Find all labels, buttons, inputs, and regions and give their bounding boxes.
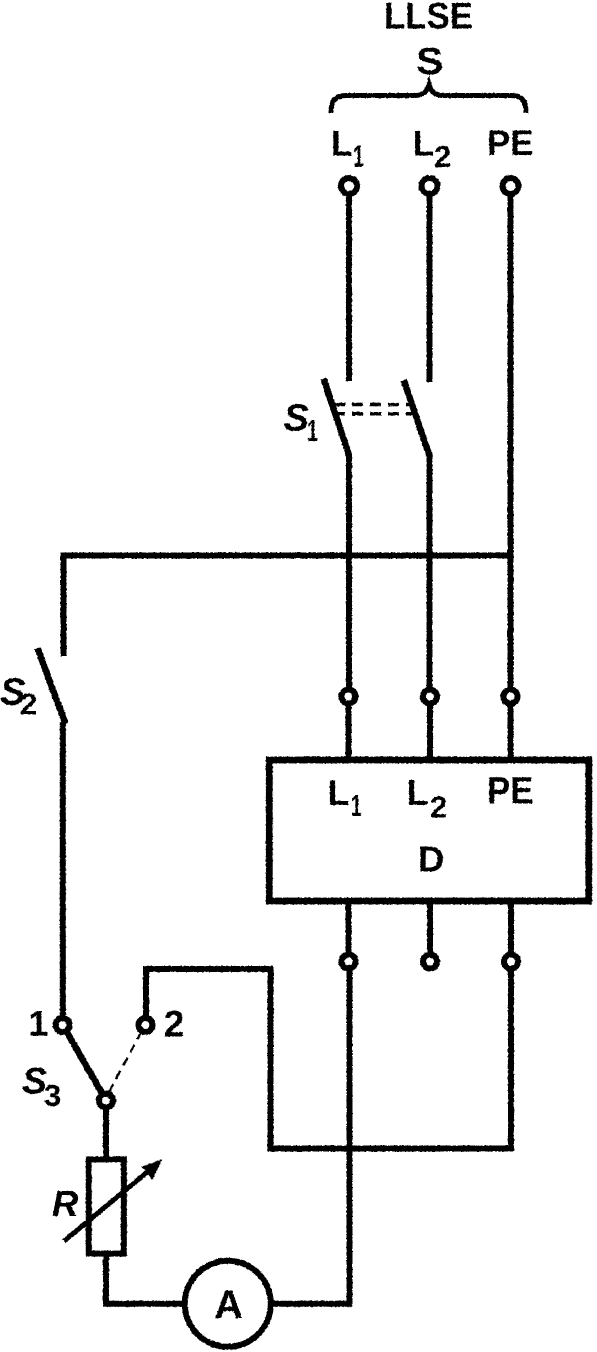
terminal D PE bottom [504, 955, 518, 969]
wire stub D L2 top [427, 703, 433, 760]
svg-text:1: 1 [307, 413, 318, 448]
svg-text:2: 2 [430, 790, 447, 825]
wire S2 to contact 1 [60, 722, 66, 1018]
wire stub D L1 bottom [346, 898, 352, 955]
svg-text:S: S [284, 398, 309, 440]
svg-text:2: 2 [20, 687, 37, 722]
svg-text:L: L [407, 772, 429, 813]
ammeter A [185, 1261, 271, 1347]
svg-text:3: 3 [44, 1078, 61, 1113]
wire stub D L1 top [346, 703, 352, 760]
switch S3 common pole [99, 1094, 113, 1108]
device D box [269, 760, 589, 901]
switch S3 contact 1 [56, 1018, 70, 1032]
terminal D L1 bottom [342, 955, 356, 969]
terminal PE [503, 178, 519, 194]
svg-text:1: 1 [351, 788, 362, 823]
switch S2 blade [38, 648, 66, 724]
svg-text:L: L [331, 125, 352, 164]
terminal D L1 top [342, 690, 356, 704]
svg-text:PE: PE [487, 124, 534, 163]
switch S1 linkage dashed line upper [334, 403, 412, 407]
terminal D L2 top [423, 690, 437, 704]
svg-text:PE: PE [487, 771, 534, 813]
switch S3 contact 2 [139, 1018, 153, 1032]
svg-text:R: R [52, 1183, 79, 1224]
wire D PE bottom to contact 2 [146, 968, 511, 1149]
svg-text:2: 2 [164, 1004, 185, 1045]
wire L2 below S1 [427, 453, 433, 692]
switch S1 linkage dashed line lower [334, 412, 412, 416]
wire PE vertical [508, 196, 514, 692]
wire stub D PE bottom [508, 898, 514, 955]
switch S1 pole 2 blade [404, 380, 430, 456]
svg-text:L: L [328, 772, 350, 813]
brace over supply terminals [331, 85, 526, 114]
resistor R arrow line [64, 1172, 148, 1242]
wire D L1 bottom to ammeter [347, 968, 353, 1304]
wire ammeter to D L1 [271, 1301, 352, 1307]
svg-text:S: S [416, 41, 444, 83]
wire stub D PE top [508, 703, 514, 760]
svg-text:2: 2 [434, 139, 451, 174]
svg-text:1: 1 [353, 139, 364, 174]
resistor R body [89, 1159, 124, 1253]
terminal L1 [341, 178, 357, 194]
svg-text:LLSE: LLSE [384, 0, 473, 37]
terminal D PE top [504, 690, 518, 704]
switch S3 dashed position [109, 1032, 142, 1093]
switch S1 pole 1 blade [324, 379, 350, 456]
wire L1 below S1 [346, 452, 352, 692]
svg-text:D: D [418, 839, 444, 880]
terminal D L2 bottom [423, 955, 437, 969]
wire S3 to resistor [103, 1108, 109, 1161]
svg-text:L: L [413, 125, 434, 164]
terminal L2 [422, 178, 438, 194]
svg-text:1: 1 [29, 1005, 48, 1044]
wire L2 upper [427, 196, 433, 382]
switch S3 blade [67, 1032, 104, 1096]
resistor R arrow head [142, 1160, 163, 1180]
svg-text:A: A [214, 1283, 243, 1327]
wire L1 upper [346, 196, 352, 381]
wire stub D L2 bottom [427, 898, 433, 955]
wire resistor to ammeter [106, 1252, 184, 1304]
wire horizontal PE tap [64, 556, 511, 657]
